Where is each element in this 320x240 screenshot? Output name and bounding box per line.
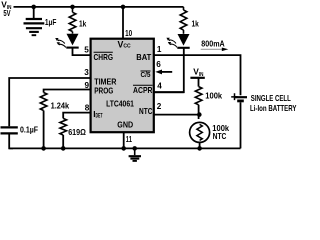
svg-text:1k: 1k [79, 20, 87, 29]
op-amp U1 LTC4061 body [91, 39, 154, 133]
wire TIMER pin 3 to C2 [9, 78, 91, 126]
node junction dot thermistor-rail [197, 146, 202, 151]
svg-text:Li-Ion BATTERY: Li-Ion BATTERY [250, 104, 297, 113]
svg-text:9: 9 [85, 81, 90, 90]
wire D1 cathode to pin 5 [73, 48, 92, 56]
svg-text:4: 4 [157, 82, 162, 91]
resistor R1 1k [69, 7, 76, 32]
resistor R2 1k [180, 7, 187, 30]
wire C2 to bottom rail [9, 135, 13, 149]
svg-text:3: 3 [84, 68, 89, 77]
LED D1 [72, 32, 74, 34]
wire R5 to bottom rail [62, 135, 64, 148]
wire VIN tap bar [190, 77, 204, 79]
wire R4 to bottom rail [43, 111, 45, 149]
resistor R4 1.24k [40, 93, 47, 111]
wire PROG pin 9 to R4 [44, 90, 91, 93]
svg-text:GND: GND [117, 121, 133, 130]
battery BT1 plates [234, 96, 247, 98]
svg-text:NTC: NTC [139, 107, 152, 116]
LED D1 emission arrows [58, 40, 65, 44]
wire ACPR pin 4 joins D2 vertical [154, 91, 184, 93]
svg-text:8: 8 [85, 104, 90, 113]
wire GND pin 11 [123, 132, 125, 148]
ground symbol bottom [134, 148, 136, 155]
svg-text:1k: 1k [192, 20, 200, 29]
node junction dot at pin10 [121, 5, 126, 10]
svg-text:BAT: BAT [136, 53, 151, 62]
wire pin 10 VCC [122, 7, 124, 39]
svg-text:11: 11 [126, 135, 132, 144]
svg-text:C/5: C/5 [141, 70, 151, 79]
wire battery to bottom rail [240, 102, 242, 148]
svg-text:NTC: NTC [213, 132, 227, 141]
node junction dot R5-rail [61, 146, 66, 151]
wire IDET pin 8 to R5 [63, 113, 91, 119]
node junction dot NTC divider [197, 112, 202, 117]
svg-text:800mA: 800mA [201, 40, 224, 49]
resistor R3 100k [195, 87, 202, 105]
arrow into pin 6 C/5 [161, 71, 173, 73]
node junction dot ground stem [132, 146, 137, 151]
thermistor RT 100k NTC [190, 122, 210, 142]
node junction dot pin11-rail [121, 146, 126, 151]
svg-text:LTC4061: LTC4061 [106, 100, 134, 109]
svg-text:1.24k: 1.24k [51, 101, 70, 110]
LED D2 [183, 30, 185, 34]
LED D2 emission arrows [169, 39, 176, 43]
svg-text:10: 10 [125, 29, 132, 38]
svg-text:5: 5 [84, 45, 89, 54]
svg-text:SINGLE CELL: SINGLE CELL [251, 94, 291, 103]
node junction dot at R1 [70, 5, 75, 10]
wire C1 top lead [33, 7, 35, 18]
battery BT1 plus sign [231, 93, 238, 100]
node junction dot at C1 [31, 5, 36, 10]
capacitor C2 0.1uF [1, 126, 18, 128]
capacitor C1 1uF [26, 18, 42, 20]
wire R3 to NTC node [198, 105, 200, 119]
ground below C1 [26, 27, 42, 29]
svg-text:ACPR: ACPR [133, 86, 153, 95]
svg-text:619Ω: 619Ω [68, 128, 86, 137]
wire thermistor to bottom rail [199, 142, 201, 148]
wire D2 cathode down to ACPR pin 4 [154, 48, 184, 92]
wire bottom ground rail [9, 147, 240, 149]
svg-text:5V: 5V [3, 8, 10, 18]
svg-text:0.1µF: 0.1µF [20, 125, 38, 134]
svg-text:2: 2 [157, 102, 162, 111]
svg-text:CHRG: CHRG [94, 53, 114, 62]
svg-text:TIMER: TIMER [94, 77, 116, 86]
svg-text:PROG: PROG [94, 86, 113, 95]
wire NTC pin 2 [154, 114, 200, 116]
node junction dot R4-rail [41, 146, 46, 151]
svg-text:1µF: 1µF [45, 18, 57, 27]
svg-text:1: 1 [157, 45, 162, 54]
svg-text:6: 6 [156, 60, 161, 69]
arrow 800mA current direction [201, 48, 222, 50]
wire BAT pin1 to battery [154, 55, 241, 95]
svg-text:100k: 100k [205, 92, 222, 101]
wire top VIN rail [14, 6, 184, 8]
resistor R5 619 ohm [60, 118, 67, 135]
